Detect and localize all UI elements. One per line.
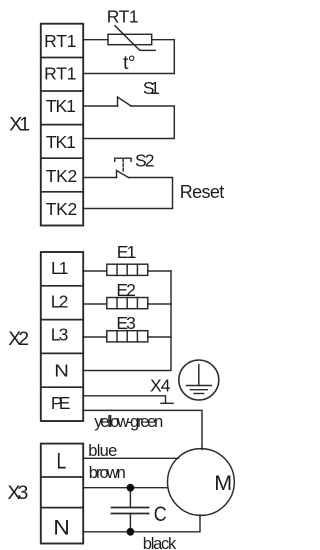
wire L2 to E2 xyxy=(83,303,107,305)
capacitor C plates xyxy=(112,507,149,509)
svg-text:E2: E2 xyxy=(116,280,135,300)
svg-text:Reset: Reset xyxy=(180,182,225,202)
switch S1 contact xyxy=(118,97,132,106)
svg-text:L: L xyxy=(57,450,67,474)
wire brown to motor xyxy=(83,487,168,489)
svg-text:X1: X1 xyxy=(9,114,30,136)
wire L1 to E1 xyxy=(83,270,107,272)
pushbutton S2 actuator rod (dashed) xyxy=(122,159,124,171)
heater E2 body xyxy=(107,298,148,309)
protective earth symbol xyxy=(179,360,219,400)
wire RT1 top xyxy=(83,39,108,41)
wire PE to X4 terminal xyxy=(83,396,166,404)
svg-text:M: M xyxy=(214,471,232,495)
svg-text:S1: S1 xyxy=(143,78,160,98)
svg-text:brown: brown xyxy=(89,464,126,482)
wire RT1 right loop xyxy=(83,40,174,74)
svg-text:C: C xyxy=(154,503,167,527)
terminal block X1 xyxy=(41,24,83,226)
svg-text:RT1: RT1 xyxy=(44,31,76,51)
svg-text:X2: X2 xyxy=(8,328,29,350)
svg-text:L1: L1 xyxy=(51,258,69,278)
svg-text:t°: t° xyxy=(123,52,136,74)
wire S1 left xyxy=(83,105,118,107)
svg-text:X4: X4 xyxy=(150,376,171,396)
svg-text:RT1: RT1 xyxy=(107,7,139,27)
svg-text:S2: S2 xyxy=(135,151,155,171)
svg-text:N: N xyxy=(53,515,70,539)
svg-text:N: N xyxy=(54,362,69,381)
heater E1 body xyxy=(107,264,148,275)
wire E2 to bus xyxy=(148,303,171,305)
pushbutton S2 actuator cap xyxy=(115,158,131,161)
junction dot brown/capacitor xyxy=(126,484,134,492)
terminal X4 bar xyxy=(161,402,173,404)
junction dot black/capacitor xyxy=(126,528,134,536)
wire S1 right loop xyxy=(83,106,174,139)
svg-text:E1: E1 xyxy=(117,242,137,262)
thermistor RT1 diagonal xyxy=(115,26,155,51)
svg-text:PE: PE xyxy=(51,393,71,413)
svg-text:yellow-green: yellow-green xyxy=(94,413,163,431)
svg-text:E3: E3 xyxy=(116,313,135,333)
svg-text:L3: L3 xyxy=(51,325,69,345)
svg-text:blue: blue xyxy=(88,442,117,460)
wire L3 to E3 xyxy=(83,336,107,338)
wire black N to motor xyxy=(83,515,200,532)
capacitor C leads xyxy=(129,488,131,508)
svg-text:L2: L2 xyxy=(51,291,69,311)
thermistor RT1 body xyxy=(108,34,152,44)
terminal block X3 xyxy=(41,444,83,544)
wire PE yellow-green to motor xyxy=(83,410,202,449)
terminal block X2 xyxy=(41,252,83,421)
wire E1 to bus xyxy=(148,270,171,272)
heater E3 body xyxy=(107,331,148,342)
svg-text:TK1: TK1 xyxy=(46,132,76,152)
wire S2 left xyxy=(83,177,117,179)
motor M circle xyxy=(168,449,235,516)
svg-text:X3: X3 xyxy=(8,482,29,504)
svg-text:RT1: RT1 xyxy=(44,64,76,84)
svg-text:black: black xyxy=(143,535,177,550)
svg-text:TK1: TK1 xyxy=(46,96,76,116)
wire E3 to bus xyxy=(148,336,171,338)
wire heater return bus to N xyxy=(83,271,171,371)
wire S2 right loop xyxy=(83,178,173,209)
svg-text:TK2: TK2 xyxy=(46,166,77,186)
wire blue L to motor xyxy=(83,457,179,459)
svg-text:TK2: TK2 xyxy=(46,199,77,219)
switch S2 contact xyxy=(117,171,129,178)
